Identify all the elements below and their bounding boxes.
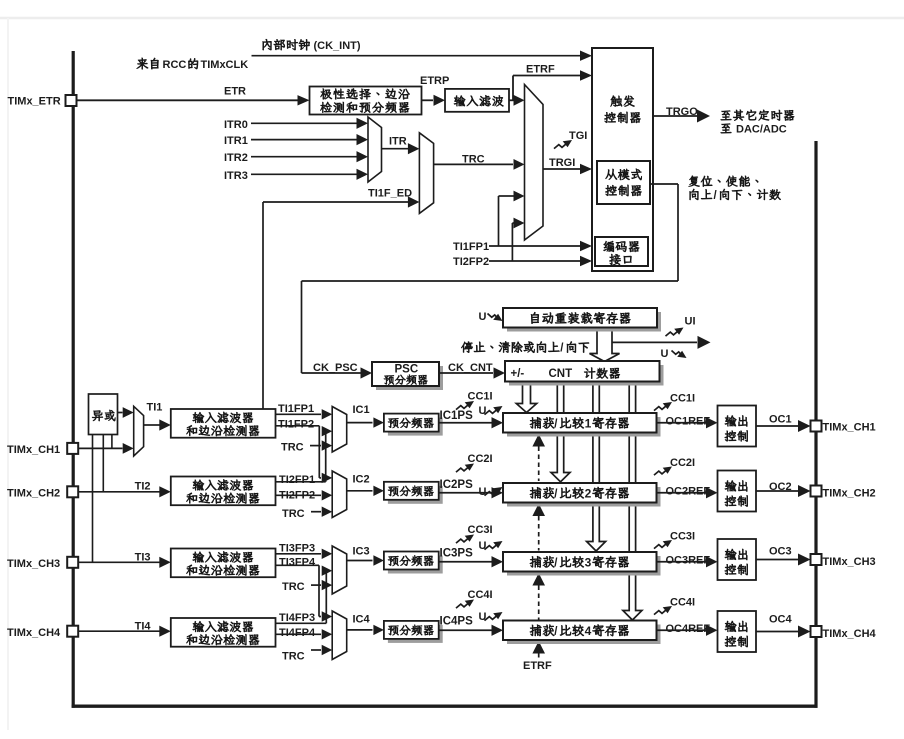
wire ITR bbox=[382, 143, 420, 154]
box polarity/edge detector & prescaler bbox=[310, 87, 422, 115]
event arrow U into CCR3 bbox=[485, 541, 503, 550]
svg-text:OC1REF: OC1REF bbox=[666, 415, 711, 427]
wire IC1 bbox=[347, 417, 384, 427]
label IC2PS bbox=[440, 479, 474, 491]
event arrow TGI bbox=[554, 140, 572, 149]
svg-text:OC4: OC4 bbox=[769, 614, 793, 626]
wire slave controller feedback bbox=[302, 184, 679, 379]
wire TI1FP1 to encoder bbox=[489, 191, 592, 252]
svg-text:(CK_INT): (CK_INT) bbox=[314, 40, 361, 52]
label OC2REF bbox=[666, 485, 711, 497]
label TRC ch2 bbox=[282, 508, 305, 520]
ETRF arrow into CCR4 bottom bbox=[532, 641, 545, 658]
svg-text:TRGI: TRGI bbox=[549, 157, 575, 169]
event arrow UI bbox=[666, 328, 684, 337]
wire TI2FP2 to encoder bbox=[489, 218, 592, 267]
label OC3REF bbox=[666, 554, 711, 566]
chip boundary left edge bbox=[72, 51, 75, 708]
mux TI1 selector bbox=[134, 406, 144, 456]
svg-text:ITR0: ITR0 bbox=[224, 119, 248, 131]
wire TRGI bbox=[543, 164, 592, 174]
svg-text:TIMx_CH4: TIMx_CH4 bbox=[7, 627, 61, 639]
label ETRF bbox=[526, 64, 555, 76]
svg-text:U: U bbox=[479, 611, 487, 623]
pin TIMx_ETR bbox=[8, 95, 77, 108]
svg-text:IC1: IC1 bbox=[353, 404, 370, 416]
box input filter & edge detector TI1 bbox=[171, 409, 276, 438]
pin TIMx_CH3 right bbox=[811, 554, 876, 568]
wire ITR0 bbox=[251, 118, 368, 129]
wire ETRF bbox=[509, 70, 592, 105]
pin TIMx_CH2 left bbox=[7, 486, 78, 499]
svg-text:TI3FP3: TI3FP3 bbox=[279, 543, 315, 555]
label IC1PS bbox=[440, 410, 474, 422]
svg-text:TRC: TRC bbox=[281, 442, 304, 454]
box capture/compare register 2 bbox=[503, 483, 661, 507]
svg-text:U: U bbox=[479, 311, 487, 323]
wire ITR1 bbox=[251, 134, 368, 145]
svg-text:OC3: OC3 bbox=[769, 546, 792, 558]
svg-text:IC2: IC2 bbox=[353, 474, 370, 486]
box input filter & edge detector TI3 bbox=[171, 549, 276, 578]
wire ITR3 bbox=[251, 169, 368, 180]
label CC3I left bbox=[468, 524, 493, 536]
event arrow U into CCR2 bbox=[485, 487, 503, 496]
wire IC4PS to CCR4 bbox=[439, 625, 503, 636]
box prescaler IC1 bbox=[384, 414, 443, 436]
svg-text:CC3I: CC3I bbox=[670, 531, 695, 543]
label TI2FP2 trigger bbox=[453, 256, 489, 268]
svg-text:TIMx_ETR: TIMx_ETR bbox=[8, 96, 61, 108]
label CK_PSC bbox=[313, 362, 358, 374]
wire TRC ch4 bbox=[311, 645, 332, 655]
label ITR2 bbox=[224, 152, 248, 164]
label TI4FP3 bbox=[279, 612, 315, 624]
wire IC3 bbox=[347, 555, 384, 565]
label CC4I left bbox=[468, 589, 493, 601]
wire CK_INT bbox=[252, 51, 593, 61]
wire IC2PS to CCR2 bbox=[439, 487, 503, 498]
box auto-reload register bbox=[503, 308, 661, 332]
label TI3 bbox=[135, 552, 151, 564]
label TGI bbox=[569, 130, 587, 142]
wire IC2 bbox=[347, 486, 384, 496]
event arrow U into CCR4 bbox=[485, 612, 503, 621]
svg-text:CC1I: CC1I bbox=[670, 393, 695, 405]
svg-text:CC2I: CC2I bbox=[468, 453, 493, 465]
wire TI3FP3 bbox=[276, 549, 333, 559]
svg-text:TRC: TRC bbox=[282, 581, 305, 593]
svg-text:OC1: OC1 bbox=[769, 414, 792, 426]
label CC4I right bbox=[670, 597, 695, 609]
box prescaler IC2 bbox=[384, 482, 443, 504]
wire ITR2 bbox=[251, 151, 368, 162]
svg-text:TI1F_ED: TI1F_ED bbox=[368, 188, 412, 200]
svg-text:IC4PS: IC4PS bbox=[440, 616, 474, 628]
label reset enable updown count bbox=[689, 176, 781, 202]
svg-text:ITR1: ITR1 bbox=[224, 135, 248, 147]
pin TIMx_CH1 left bbox=[7, 443, 78, 456]
wire IC1PS to CCR1 bbox=[439, 417, 503, 428]
wire OC3REF bbox=[657, 556, 718, 567]
wire XOR to CH1 line bbox=[111, 435, 113, 449]
label IC2 bbox=[353, 474, 370, 486]
wire TRC ch2 bbox=[311, 507, 332, 517]
wire OC2 bbox=[756, 485, 811, 497]
svg-text:TIMx_CH4: TIMx_CH4 bbox=[823, 628, 877, 640]
event arrow CC2I left bbox=[456, 464, 474, 473]
label TRC ch4 bbox=[282, 651, 305, 663]
svg-text:TI2: TI2 bbox=[135, 481, 151, 493]
svg-text:IC3: IC3 bbox=[353, 546, 370, 558]
svg-text:TI3: TI3 bbox=[135, 552, 151, 564]
wire ETR bbox=[77, 95, 310, 105]
wire CK_CNT bbox=[439, 367, 505, 378]
chip boundary bottom edge bbox=[72, 705, 818, 708]
label CC2I right bbox=[670, 457, 695, 469]
svg-text:TIMx_CH1: TIMx_CH1 bbox=[823, 422, 876, 434]
svg-text:TIMx_CH1: TIMx_CH1 bbox=[7, 444, 60, 456]
label OC3 bbox=[769, 546, 792, 558]
label CC1I right bbox=[670, 393, 695, 405]
wire TRC ch3 bbox=[311, 580, 332, 590]
svg-text:ETRP: ETRP bbox=[420, 75, 449, 87]
label UI bbox=[685, 316, 696, 328]
pin TIMx_CH1 right bbox=[811, 421, 876, 434]
hollow arrow CNT to CCR3 bbox=[587, 383, 606, 551]
label ETR bbox=[224, 86, 246, 98]
svg-text:CC4I: CC4I bbox=[670, 597, 695, 609]
svg-text:ETRF: ETRF bbox=[526, 64, 555, 76]
box prescaler IC3 bbox=[384, 552, 443, 574]
svg-text:TI4: TI4 bbox=[135, 621, 152, 633]
svg-text:DAC/ADC: DAC/ADC bbox=[736, 124, 787, 136]
label U left CCR1 bbox=[479, 405, 487, 417]
box output control 4 bbox=[718, 611, 757, 652]
label TI1F_ED bbox=[368, 188, 412, 200]
label ITR3 bbox=[224, 170, 248, 182]
event arrow CC4I left bbox=[456, 600, 474, 609]
wire TI1 bbox=[144, 419, 171, 430]
svg-text:TRC: TRC bbox=[282, 651, 305, 663]
svg-text:U: U bbox=[479, 540, 487, 552]
svg-text:TI2FP1: TI2FP1 bbox=[279, 474, 315, 486]
svg-text:TIMx_CH3: TIMx_CH3 bbox=[823, 556, 876, 568]
box CNT counter bbox=[505, 361, 664, 386]
svg-text:U: U bbox=[479, 405, 487, 417]
label IC3PS bbox=[440, 548, 474, 560]
wire OC2REF bbox=[657, 487, 718, 498]
svg-text:TRC: TRC bbox=[282, 508, 305, 520]
svg-text:CC1I: CC1I bbox=[468, 391, 493, 403]
box output control 3 bbox=[718, 539, 757, 580]
label TRC ch3 bbox=[282, 581, 305, 593]
svg-text:CK_PSC: CK_PSC bbox=[313, 362, 358, 374]
wire TRGO bbox=[653, 110, 710, 123]
box input filter & edge detector TI2 bbox=[171, 477, 276, 506]
svg-text:IC3PS: IC3PS bbox=[440, 548, 474, 560]
svg-text:TIMx_CH3: TIMx_CH3 bbox=[7, 558, 60, 570]
wire TI2 bbox=[78, 486, 171, 497]
wire TI4 bbox=[78, 626, 171, 637]
label TI3FP4 bbox=[279, 557, 316, 569]
box slave mode controller bbox=[597, 161, 650, 204]
label IC4 bbox=[353, 614, 371, 626]
wire TI3FP4 cross down bbox=[276, 565, 333, 621]
wire TI4FP3 cross up bbox=[276, 566, 333, 624]
svg-text:TI4FP4: TI4FP4 bbox=[279, 627, 316, 639]
svg-text:TI4FP3: TI4FP3 bbox=[279, 612, 315, 624]
label TI1FP1 trigger bbox=[453, 241, 489, 253]
label OC1REF bbox=[666, 415, 711, 427]
box input filter & edge detector TI4 bbox=[171, 618, 276, 647]
svg-text:CC3I: CC3I bbox=[468, 524, 493, 536]
box capture/compare register 3 bbox=[503, 552, 661, 576]
wire OC4 bbox=[756, 626, 811, 638]
svg-text:TI1: TI1 bbox=[147, 402, 163, 414]
svg-text:ETRF: ETRF bbox=[523, 660, 552, 672]
box output control 1 bbox=[718, 406, 757, 447]
wire ETRP bbox=[422, 95, 446, 106]
dashed arrow into CCR2 bottom bbox=[532, 504, 545, 551]
label TRC ch1 bbox=[281, 442, 304, 454]
hollow arrow CNT to CCR1 bbox=[516, 383, 536, 413]
svg-text:CNT: CNT bbox=[549, 368, 573, 380]
label TI4 bbox=[135, 621, 152, 633]
label CK_CNT bbox=[448, 362, 493, 374]
label CC2I left bbox=[468, 453, 493, 465]
box capture/compare register 1 bbox=[503, 413, 661, 437]
svg-text:TIMx_CH2: TIMx_CH2 bbox=[7, 488, 60, 500]
svg-text:TIMxCLK: TIMxCLK bbox=[201, 59, 249, 71]
svg-text:UI: UI bbox=[685, 316, 696, 328]
mux IC3 selector bbox=[332, 546, 347, 594]
event arrow CC1I right bbox=[654, 402, 672, 411]
label TRGO bbox=[666, 106, 698, 118]
label TRC bbox=[462, 154, 485, 166]
label from RCC TIMxCLK bbox=[137, 58, 249, 71]
svg-text:U: U bbox=[661, 348, 669, 360]
label CC1I left bbox=[468, 391, 493, 403]
label to other timers bbox=[721, 110, 794, 136]
label ETRP bbox=[420, 75, 449, 87]
wire TI1FP1 bbox=[276, 409, 333, 419]
label TI2FP1 bbox=[279, 474, 315, 486]
mux IC4 selector bbox=[332, 611, 347, 660]
label U left CCR4 bbox=[479, 611, 487, 623]
svg-text:1: 1 bbox=[585, 416, 592, 430]
wire IC3PS to CCR3 bbox=[439, 556, 503, 567]
svg-text:OC2REF: OC2REF bbox=[666, 485, 711, 497]
wire TI2FP2 bbox=[276, 490, 333, 500]
label TI1FP1 bbox=[278, 403, 314, 415]
pin TIMx_CH4 left bbox=[7, 626, 78, 639]
wire IC4 bbox=[347, 625, 384, 635]
wire OC4REF bbox=[657, 625, 718, 636]
label TRGI bbox=[549, 157, 575, 169]
label CC3I right bbox=[670, 531, 695, 543]
label U left CCR3 bbox=[479, 540, 487, 552]
box XOR bbox=[89, 394, 118, 435]
event arrow U update bbox=[672, 351, 687, 359]
wire OC1 bbox=[756, 420, 811, 432]
pin TIMx_CH2 right bbox=[811, 486, 876, 500]
dashed arrow into CCR1 bottom bbox=[532, 434, 545, 481]
label TI2 bbox=[135, 481, 151, 493]
svg-text:TI1FP2: TI1FP2 bbox=[278, 419, 314, 431]
mux TRC selector bbox=[419, 133, 433, 214]
svg-text:OC4REF: OC4REF bbox=[666, 623, 711, 635]
label IC1 bbox=[353, 404, 370, 416]
box trigger controller bbox=[592, 48, 653, 271]
wire CH1 to TI1 mux bbox=[78, 443, 134, 454]
wire XOR to CH2 line bbox=[102, 435, 104, 492]
svg-text:3: 3 bbox=[585, 555, 592, 569]
pin TIMx_CH3 left bbox=[7, 557, 78, 570]
label TI1 bbox=[147, 402, 163, 414]
chip boundary right edge bbox=[814, 141, 817, 708]
event arrow CC3I right bbox=[654, 540, 672, 549]
svg-text:+/-: +/- bbox=[511, 368, 525, 380]
wire XOR to CH3 line bbox=[92, 435, 94, 563]
label OC2 bbox=[769, 481, 792, 493]
label U before ARR bbox=[479, 311, 487, 323]
wire OC3 bbox=[756, 554, 811, 566]
svg-text:TIMx_CH2: TIMx_CH2 bbox=[823, 488, 876, 500]
event arrow U into ARR bbox=[488, 314, 503, 322]
mux IC1 selector bbox=[332, 407, 347, 453]
event arrow U into CCR1 bbox=[485, 406, 503, 415]
wire TI1FP2 cross down bbox=[276, 426, 333, 483]
label ITR0 bbox=[224, 119, 248, 131]
wire TRC ch1 bbox=[310, 440, 332, 450]
label IC3 bbox=[353, 546, 370, 558]
svg-text:PSC: PSC bbox=[395, 364, 419, 376]
wire XOR out bbox=[118, 407, 134, 418]
svg-text:TI1FP1: TI1FP1 bbox=[278, 403, 314, 415]
label OC4REF bbox=[666, 623, 711, 635]
box PSC prescaler bbox=[372, 362, 443, 390]
label ITR1 bbox=[224, 135, 248, 147]
svg-text:ITR2: ITR2 bbox=[224, 152, 248, 164]
hollow arrow CNT to CCR4 bbox=[623, 383, 642, 620]
wire update event bbox=[612, 336, 711, 349]
svg-text:2: 2 bbox=[585, 486, 592, 500]
hollow arrow CNT to CCR2 bbox=[551, 383, 570, 482]
svg-text:IC2PS: IC2PS bbox=[440, 479, 474, 491]
label TI2FP2 bbox=[279, 490, 315, 502]
label OC4 bbox=[769, 614, 793, 626]
wire TI4FP4 bbox=[276, 629, 333, 639]
svg-text:CC4I: CC4I bbox=[468, 589, 493, 601]
svg-text:ETR: ETR bbox=[224, 86, 246, 98]
svg-text:TI2FP2: TI2FP2 bbox=[453, 256, 489, 268]
svg-text:TI3FP4: TI3FP4 bbox=[279, 557, 316, 569]
svg-text:4: 4 bbox=[585, 624, 592, 638]
mux trigger selector bbox=[525, 85, 544, 241]
svg-text:ITR3: ITR3 bbox=[224, 170, 248, 182]
svg-text:CC2I: CC2I bbox=[670, 457, 695, 469]
label ETRF bottom bbox=[523, 660, 552, 672]
wire OC1REF bbox=[657, 417, 718, 428]
mux IC2 selector bbox=[332, 471, 347, 518]
box encoder interface bbox=[595, 237, 648, 266]
hollow arrow ARR to CNT bbox=[590, 327, 620, 362]
svg-text:IC1PS: IC1PS bbox=[440, 410, 474, 422]
dashed arrow into CCR3 bottom bbox=[532, 573, 545, 620]
label U below update wire bbox=[661, 348, 669, 360]
svg-text:IC4: IC4 bbox=[353, 614, 371, 626]
label TI3FP3 bbox=[279, 543, 315, 555]
label internal clock (CK_INT) bbox=[263, 39, 361, 52]
wire TRC bbox=[434, 159, 525, 170]
pin TIMx_CH4 right bbox=[811, 626, 877, 640]
svg-text:RCC: RCC bbox=[163, 59, 187, 71]
box prescaler IC4 bbox=[384, 621, 443, 643]
svg-text:U: U bbox=[479, 486, 487, 498]
box input filter ETR bbox=[445, 89, 509, 112]
svg-text:TI1FP1: TI1FP1 bbox=[453, 241, 489, 253]
event arrow CC3I left bbox=[456, 535, 474, 544]
box capture/compare register 4 bbox=[503, 621, 661, 645]
svg-text:ITR: ITR bbox=[389, 136, 407, 148]
label stop clear updown bbox=[461, 341, 589, 354]
label U left CCR2 bbox=[479, 486, 487, 498]
wire TI3 bbox=[78, 557, 171, 568]
event arrow CC2I right bbox=[654, 467, 672, 476]
mux ITR selector bbox=[368, 117, 382, 182]
label IC4PS bbox=[440, 616, 474, 628]
event arrow CC4I right bbox=[654, 606, 672, 615]
label OC1 bbox=[769, 414, 792, 426]
label ITR bbox=[389, 136, 407, 148]
label TI4FP4 bbox=[279, 627, 316, 639]
label TI1FP2 bbox=[278, 419, 314, 431]
box output control 2 bbox=[718, 471, 757, 512]
event arrow CC1I left bbox=[456, 401, 474, 410]
wire TI1F_ED bbox=[263, 196, 419, 409]
wire TI2FP1 cross up bbox=[276, 426, 333, 482]
svg-text:OC3REF: OC3REF bbox=[666, 554, 711, 566]
